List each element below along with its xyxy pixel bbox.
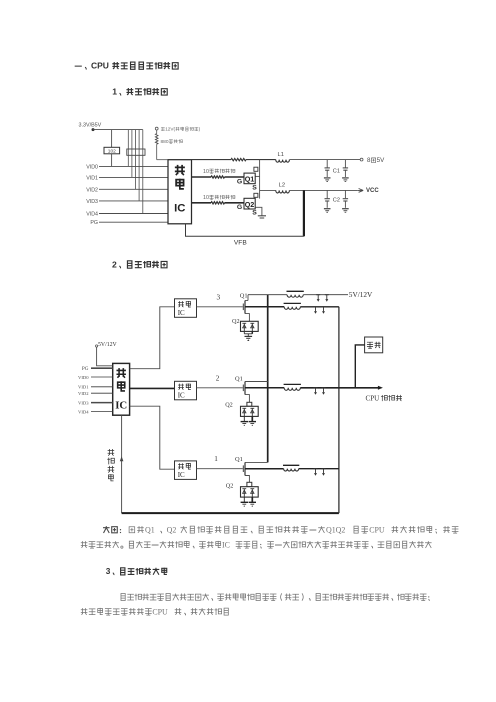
wire: Vcore tie vertical — [338, 307, 340, 513]
resistor pack 102 (R2) — [127, 149, 145, 155]
svg-text:Q1: Q1 — [145, 525, 155, 534]
svg-text:IC: IC — [222, 540, 230, 549]
terminal 5V/12V (controller) — [96, 345, 98, 347]
svg-text:VID2: VID2 — [86, 187, 98, 193]
capacitor pair (phase 3) — [314, 306, 318, 308]
wire PG — [99, 221, 168, 223]
svg-text:5V: 5V — [377, 157, 385, 164]
ground pair (phase 2) — [243, 416, 245, 421]
svg-text:2: 2 — [216, 374, 220, 382]
svg-text:Q1Q2: Q1Q2 — [326, 525, 345, 534]
wire VID3 — [99, 200, 168, 202]
power IC U1 (电源IC) — [168, 160, 192, 224]
svg-text:12V(: 12V( — [165, 127, 175, 132]
svg-text:Q1: Q1 — [235, 375, 243, 382]
wire: Q1 drain to input bus (phase 2) — [245, 381, 268, 383]
capacitor C1 pair — [326, 160, 328, 168]
inductor phase 1 — [284, 469, 299, 471]
wire: gate drive phase 1 — [197, 468, 243, 470]
wire: Q1 drain to input rail (phase 3) — [245, 300, 248, 302]
svg-text:Q1: Q1 — [245, 175, 255, 184]
svg-text:10: 10 — [203, 195, 209, 201]
wire: controller to phase-3 driver — [130, 307, 175, 369]
svg-text:IC: IC — [178, 309, 185, 317]
pin D (Q2) — [254, 193, 258, 197]
wire: bottom feedback rail — [122, 512, 339, 514]
wire: 3.3V top rail — [93, 129, 143, 131]
heading: 一、CPU 单项及多项供电图 — [75, 65, 82, 67]
wire: controller to phase-2 driver — [130, 387, 174, 389]
node: 3.3V rail junction dot — [92, 128, 95, 131]
svg-text:S: S — [252, 210, 257, 217]
svg-text:5V/12V: 5V/12V — [98, 342, 117, 348]
wire: gate drive phase 3 — [197, 306, 243, 308]
wire VID0 (controller) — [91, 376, 113, 378]
svg-text:IC: IC — [174, 203, 185, 215]
svg-text:880: 880 — [161, 139, 169, 145]
svg-text:10: 10 — [203, 169, 209, 175]
svg-text:3: 3 — [106, 566, 111, 576]
wire: Q1 source down (phase 1) — [245, 476, 249, 483]
svg-text:IC: IC — [115, 400, 127, 412]
transistor Q2 — [244, 198, 255, 209]
paragraph 2 line 2 — [81, 608, 88, 615]
power IC driver phase 2 (电源IC) — [175, 381, 197, 400]
paragraph 说明 line 1 — [103, 526, 110, 533]
svg-text:IC: IC — [178, 471, 185, 479]
ground (Q2 source) — [258, 215, 266, 217]
svg-text:5V/12V: 5V/12V — [349, 290, 373, 299]
wire: top rail IC to Q1 drain — [192, 159, 232, 161]
inductor phase 3 — [284, 307, 300, 310]
wire: phase 3 output — [245, 306, 284, 308]
wire: Q1 source down (phase 3) — [245, 314, 249, 322]
ground pair (phase 1) — [243, 497, 245, 502]
wire: VID bus verticals — [127, 130, 129, 167]
svg-text:PG: PG — [90, 220, 98, 226]
svg-text:CPU: CPU — [91, 61, 109, 71]
resistor gate 10R (Q1) — [192, 176, 212, 178]
wire: gate drive phase 2 — [197, 387, 243, 389]
wire VID1 (controller) — [91, 386, 113, 388]
wire: L2 output rail — [260, 189, 276, 191]
wire PG — [91, 367, 113, 369]
pin D (Q1) — [254, 167, 258, 171]
terminal VCC arrow — [358, 189, 363, 193]
wire VID1 — [99, 176, 168, 178]
wire: VFB bottom rail — [186, 224, 304, 237]
wire VID3 (controller) — [91, 402, 113, 404]
svg-text:G: G — [237, 179, 242, 186]
paragraph 2 line 1 — [121, 593, 125, 600]
paragraph 说明 line 2 — [81, 541, 88, 548]
capacitor pair (phase 1) — [314, 468, 318, 470]
wire VID2 — [99, 188, 168, 190]
svg-text:1: 1 — [214, 455, 218, 463]
wire VID2 (controller) — [91, 392, 113, 394]
wire VID0 — [99, 165, 168, 167]
wire: northbridge to Vcore — [355, 345, 364, 388]
resistor 880R pull-up — [156, 130, 158, 134]
wire: phase 1 output — [245, 468, 284, 470]
svg-text:C1: C1 — [333, 168, 340, 174]
svg-text:Q2: Q2 — [232, 318, 240, 325]
svg-text:3.3V/B5V: 3.3V/B5V — [79, 122, 102, 128]
svg-text:2: 2 — [112, 259, 117, 269]
svg-text:CPU: CPU — [366, 395, 380, 403]
svg-text:L2: L2 — [279, 183, 285, 189]
power IC U2 main controller (电源IC) — [113, 363, 130, 415]
arrow: CPU main supply — [378, 386, 383, 390]
arrow: feedback direction — [120, 456, 124, 461]
capacitor pair (phase 2) — [314, 387, 318, 389]
svg-text:G: G — [237, 204, 242, 211]
wire VID4 — [99, 213, 168, 215]
svg-text:Q2: Q2 — [226, 482, 234, 489]
wire: pull-up to IC — [156, 144, 158, 160]
svg-text:VFB: VFB — [234, 239, 247, 246]
resistor 102 (R1) — [111, 130, 113, 148]
power IC driver phase 1 (电源IC) — [175, 461, 197, 480]
svg-text:S: S — [252, 185, 257, 192]
wire: voltage feedback — [121, 415, 123, 513]
svg-text:VID0: VID0 — [78, 375, 89, 380]
terminal: 12V pull-up input — [155, 127, 158, 130]
resistor gate 10R (Q2) — [192, 202, 212, 204]
svg-text:L1: L1 — [278, 152, 284, 158]
svg-text:Q2: Q2 — [245, 200, 255, 209]
resistor series (top rail) — [231, 158, 246, 160]
svg-text:VID2: VID2 — [78, 391, 89, 396]
svg-text:Q1: Q1 — [235, 456, 243, 463]
svg-text:CPU: CPU — [152, 607, 168, 616]
svg-text:VID0: VID0 — [86, 164, 98, 170]
transistor Q1 — [244, 173, 255, 184]
wire: Q1 drain vertical — [259, 160, 261, 199]
svg-text:IC: IC — [178, 392, 185, 400]
svg-text:VID3: VID3 — [78, 400, 89, 405]
wire: 5V/12V input rail (phase 3) — [248, 294, 287, 296]
svg-text:VID1: VID1 — [86, 175, 98, 181]
svg-text:VCC: VCC — [366, 188, 379, 194]
svg-text:C2: C2 — [333, 198, 340, 204]
svg-text:VID4: VID4 — [78, 409, 89, 414]
wire 5V/12V to controller — [97, 347, 113, 366]
wire VID4 (controller) — [91, 411, 113, 413]
wire: 5V/12V input bus vertical — [267, 295, 269, 463]
svg-text:Q1: Q1 — [240, 293, 248, 300]
svg-text:102: 102 — [108, 149, 116, 155]
svg-text:Q2: Q2 — [167, 525, 177, 534]
svg-text:8: 8 — [367, 157, 371, 164]
capacitor pair (input rail) — [316, 294, 320, 296]
svg-text:VID4: VID4 — [86, 212, 98, 218]
svg-text:CPU: CPU — [369, 525, 385, 534]
wire: controller to phase-1 driver — [130, 406, 175, 469]
capacitor C2 pair — [326, 190, 328, 198]
power IC driver phase 3 (电源IC) — [175, 299, 197, 318]
ground (phase 3) — [243, 331, 245, 333]
wire: feedback from L2 output — [303, 190, 305, 236]
svg-text:Q2: Q2 — [225, 401, 233, 408]
svg-text:VID3: VID3 — [86, 199, 98, 205]
wire: phase 2 output — [245, 387, 284, 389]
inductor input filter — [287, 295, 303, 298]
wire: Q1 drain to input bus (phase 1) — [245, 461, 268, 463]
wire: Q2 source to ground — [255, 207, 262, 215]
svg-text:): ) — [199, 127, 201, 132]
svg-text:VID1: VID1 — [78, 385, 89, 390]
svg-text:1: 1 — [112, 87, 117, 97]
net label 电压反馈 — [108, 449, 115, 456]
inductor phase 2 — [284, 388, 300, 391]
svg-text:PG: PG — [82, 366, 89, 372]
svg-text:3: 3 — [217, 293, 221, 301]
northbridge box 北桥 — [365, 337, 383, 353]
wire: L1 to 8/5V terminal — [289, 159, 360, 161]
label 有12V(电源插口点) — [161, 127, 165, 130]
wire: Q1 source down (phase 2) — [245, 395, 249, 403]
terminal 8或5V — [360, 158, 363, 161]
